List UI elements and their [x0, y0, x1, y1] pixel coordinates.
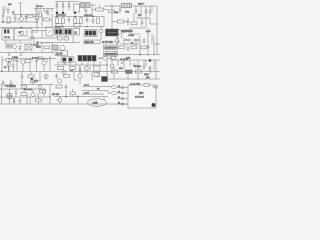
fuse F1 marks [124, 3, 130, 8]
diode D4 [145, 10, 147, 16]
transistor Q1 [19, 17, 23, 21]
wire step right [136, 18, 157, 24]
resistor R38 [28, 75, 34, 78]
transistor Q4 [57, 79, 61, 83]
capacitor C8 [86, 18, 89, 23]
transistor Q10 [42, 90, 46, 94]
IC U3 cell 3 [93, 31, 96, 36]
relay K1 [46, 27, 53, 36]
resistor R10 [6, 45, 12, 49]
svg-text:220V~: 220V~ [138, 4, 145, 6]
op-amp U4 [101, 56, 107, 62]
wire q11 [56, 97, 60, 105]
wire left rail x3 [2, 10, 4, 22]
svg-text:NT 12: NT 12 [4, 37, 11, 39]
svg-text:BC548: BC548 [134, 66, 141, 68]
wire u5 [116, 32, 127, 38]
svg-text:B.Pl.Mod: B.Pl.Mod [135, 97, 145, 99]
box X1 crossed [25, 45, 32, 51]
svg-text:SP2: SP2 [139, 93, 144, 95]
zener D3 [68, 2, 70, 11]
chassis box [14, 29, 32, 41]
capacitor C37 [143, 60, 146, 70]
wire right drops [140, 36, 154, 56]
wire bus y52 [0, 51, 54, 53]
capacitor C43 [2, 80, 5, 86]
diode D9 [13, 98, 15, 104]
lug E7 [155, 86, 158, 89]
resistor R37 [6, 59, 12, 62]
resistor R10 bar [7, 45, 11, 47]
capacitor C38 [19, 98, 22, 104]
wire drops r2 [134, 13, 146, 27]
capacitor C11 [127, 18, 130, 26]
resistor R14 [119, 46, 125, 49]
wire bus y845 [20, 80, 54, 86]
resistor R43 [22, 86, 27, 89]
connector J2 cell 1 [65, 30, 68, 34]
label wire 2 [82, 90, 96, 92]
capacitor C15 [16, 58, 19, 64]
wire right area [110, 60, 160, 70]
junction dots bus [1, 5, 140, 97]
resistor R31 [97, 18, 100, 24]
transformer T1 primary [74, 4, 80, 12]
wire Q1 leads [17, 14, 22, 22]
capacitor C31 [25, 15, 28, 23]
resistor R4 [56, 18, 59, 24]
capacitor C34 [141, 18, 144, 27]
chassis marks [17, 30, 27, 36]
svg-text:6,3V: 6,3V [146, 31, 151, 33]
node dot 1 [21, 27, 22, 28]
svg-text:AM: AM [8, 3, 11, 6]
resistor R44 [31, 80, 36, 83]
wire q9 [74, 72, 80, 85]
transformer T2 box [2, 29, 14, 41]
wire R8 [92, 5, 108, 14]
box filter FL2 [74, 24, 80, 28]
wire mid drops [74, 65, 98, 80]
resistor R40 [38, 57, 43, 60]
IC U3 cell 1 [85, 31, 88, 36]
wire mid link [12, 14, 37, 16]
resistor R21 [112, 70, 118, 73]
transformer T2 core [4, 30, 6, 34]
svg-text:D1 D2 D3: D1 D2 D3 [56, 15, 66, 17]
diode D2 [62, 2, 64, 12]
resistor R45 [85, 67, 91, 70]
module A4 dark [102, 77, 108, 82]
wire bus y104 [0, 103, 128, 105]
resistor R9 [118, 20, 125, 23]
wire right bus y54 [108, 54, 160, 56]
stub wire 2 [117, 92, 128, 94]
svg-text:BY 164: BY 164 [122, 31, 130, 33]
resistor R6 [74, 18, 77, 24]
switch S1 [52, 45, 58, 50]
resistor R33 [131, 22, 137, 25]
wire bus y585 [8, 59, 56, 62]
capacitor C41 [149, 6, 152, 16]
svg-text:1n 4u7: 1n 4u7 [32, 58, 39, 60]
wire vertical x50 [49, 84, 51, 104]
stub wire 1 [117, 87, 128, 89]
transistor Q2 [12, 45, 16, 49]
svg-text:4x UF 408: 4x UF 408 [102, 42, 113, 44]
antenna ANT [2, 7, 6, 14]
resistor R30 [39, 12, 41, 17]
node blob m [37, 42, 39, 44]
wire lower bus mid [54, 17, 104, 27]
connector lug E2 [112, 92, 117, 95]
transistor Q13 [38, 85, 42, 89]
svg-text:R12 R14: R12 R14 [84, 15, 93, 17]
node dot b2 [77, 96, 78, 97]
connector J2a shell [73, 29, 80, 36]
wire bus y79 [108, 78, 160, 80]
wire r42 [30, 97, 39, 104]
module A3 labeled box [104, 52, 118, 56]
svg-text:0,5A: 0,5A [114, 11, 119, 14]
svg-text:10u 1k2: 10u 1k2 [24, 89, 33, 91]
wire row y42 [40, 35, 80, 43]
capacitor C42 [2, 15, 4, 16]
wire right mesh [118, 28, 157, 55]
wire r drops2 [114, 60, 156, 79]
capacitor C30 [47, 12, 49, 16]
transistor Q3 [42, 61, 46, 65]
resistor R3 [44, 18, 50, 21]
resistor R34 [44, 46, 50, 49]
wire left edge low [0, 85, 14, 104]
resistor R7 [80, 18, 83, 24]
wire q14 [100, 27, 102, 40]
module A1 striation 2 [110, 30, 114, 36]
connector J3 cell 1 [63, 58, 67, 61]
wire U4 out [98, 57, 112, 59]
capacitor C17 [55, 74, 58, 80]
diode D8 [149, 66, 151, 74]
capacitor C1 [7, 7, 10, 14]
wire bm links [22, 72, 46, 85]
transistor Q14 [99, 29, 103, 33]
resistor R8 [96, 8, 104, 11]
svg-text:REC-PB: REC-PB [85, 42, 94, 44]
module notch [144, 84, 149, 87]
connector J2 cell 2 [68, 30, 71, 34]
connector J2 shell [64, 29, 72, 36]
wire x141 [140, 6, 142, 14]
resistor R24 [21, 93, 27, 96]
svg-text:21-33: 21-33 [56, 52, 63, 55]
svg-text:BC 327: BC 327 [52, 94, 60, 96]
transistor Q9 [78, 74, 82, 78]
diode D1 [56, 2, 58, 12]
wire lm4 [37, 58, 48, 62]
fuse F1 [122, 3, 132, 8]
wire left rail [1, 56, 3, 72]
wire R3 [42, 14, 52, 26]
capacitor C44 [10, 80, 13, 88]
wire r45 [86, 65, 88, 73]
capacitor C20 [65, 84, 68, 90]
relay K1 contact [48, 30, 51, 33]
svg-text:81 82: 81 82 [55, 27, 61, 29]
wire bus y97 [0, 94, 50, 97]
resistor R32 [109, 10, 115, 13]
box X1 diagonals [25, 45, 32, 51]
label wire 1 [82, 86, 96, 88]
resistor R17 [70, 67, 76, 70]
connector J1 cell 1 [56, 30, 59, 34]
wire T2 out [30, 32, 38, 42]
resistor R42 [36, 99, 42, 102]
label box REC [55, 51, 68, 56]
capacitor C12 [19, 45, 22, 51]
resistor R25 [40, 90, 46, 93]
resistor R36 [141, 46, 147, 49]
resistor R12 [58, 37, 63, 40]
wire lm links [2, 56, 50, 72]
wire right links [120, 41, 160, 46]
resistor R13 [64, 37, 69, 40]
stub comp 1 [8, 53, 10, 56]
resistor R20 [94, 73, 100, 77]
svg-text:2x50: 2x50 [36, 47, 42, 49]
wire rec-j3 [58, 55, 65, 64]
capacitor C4 electrolytic [56, 12, 58, 14]
svg-text:ws rt: ws rt [84, 84, 89, 87]
resistor R1 [7, 17, 10, 23]
capacitor C32 [92, 18, 95, 24]
connector J1 shell [55, 29, 63, 36]
resistor R2 [27, 15, 33, 18]
wire drops right [112, 6, 157, 30]
IC U3 box [84, 30, 97, 37]
capacitor C36 [21, 74, 24, 80]
resistor R35 [131, 46, 137, 49]
label wire 3 [82, 93, 96, 95]
transistor Q8 [44, 74, 48, 78]
wire bus y71 [0, 64, 160, 72]
transistor Q12 [110, 64, 114, 68]
wire r39 [72, 89, 74, 97]
svg-text:100n: 100n [144, 74, 150, 76]
node dot left [2, 21, 3, 22]
lug E5 [121, 98, 124, 100]
capacitor C39 [12, 62, 14, 72]
wire mid bus [54, 17, 104, 19]
IC U1 [80, 3, 85, 8]
lug E3 [121, 87, 124, 89]
speaker SP1 [88, 99, 107, 107]
connector J4 cell 2 [83, 55, 87, 61]
stub wire 4 [117, 103, 128, 105]
svg-text:S 2x4: S 2x4 [33, 45, 39, 47]
module A1 striation [107, 32, 117, 34]
transistor Q5 emitter [9, 95, 11, 97]
module A2 labeled box [104, 45, 118, 49]
connector J1 cell 2 [59, 30, 62, 34]
wire node A [1, 22, 37, 23]
resistor R16 [58, 67, 64, 70]
capacitor C6 electrolytic [74, 12, 76, 14]
node dot b1 [65, 96, 66, 97]
stub wire 3 [117, 98, 128, 100]
wire bus y65 [54, 61, 108, 65]
wire Q5 [9, 89, 11, 104]
wire top-right bus [104, 5, 157, 7]
transistor Q16 [62, 70, 66, 74]
capacitor C19 [15, 89, 18, 97]
capacitor C45 [79, 67, 82, 73]
svg-text:21814: 21814 [105, 46, 118, 50]
connector J3 shell [61, 57, 74, 62]
svg-text:ge bl: ge bl [84, 93, 89, 95]
box filter FL1 [56, 24, 62, 28]
motor M2 [60, 45, 65, 50]
capacitor C13 [147, 46, 150, 47]
wire mid-bottom [54, 90, 108, 104]
IC U3 cell 2 [89, 31, 92, 36]
resistor R46 [35, 14, 39, 20]
wire vertical x205 [19, 3, 23, 17]
motor M1 [20, 31, 24, 35]
wire top-left bus [34, 9, 54, 13]
resistor R26 [56, 85, 62, 88]
transistor Q15 [7, 63, 11, 67]
diode D7 [133, 39, 140, 41]
capacitor C35 [143, 38, 146, 44]
svg-text:T4 BC238: T4 BC238 [5, 85, 16, 88]
resistor R15 [25, 60, 31, 63]
module box SP2 [128, 85, 156, 108]
wire U1 out [84, 5, 96, 10]
resistor R39 [70, 92, 76, 95]
capacitor C2 [14, 14, 17, 22]
resistor R5 [62, 18, 65, 24]
node dot 2 [149, 59, 151, 61]
wire R2 [25, 15, 37, 17]
capacitor C40 [121, 62, 123, 63]
stub comp 2 [20, 53, 22, 56]
ground symbol GND1 [115, 37, 120, 45]
resistor R41 [111, 57, 116, 60]
wire dashed link [4, 42, 50, 44]
connector J4 cell 4 [92, 55, 96, 61]
resistor R23 [136, 70, 142, 73]
resistor R19 [64, 75, 70, 78]
wire top supply bus [55, 1, 79, 3]
transistor Q5 [7, 93, 12, 98]
wire lug links [96, 87, 112, 105]
wire q15 [8, 59, 10, 72]
transistor Q6 [31, 92, 35, 96]
lug E6 [121, 103, 124, 105]
capacitor C16 [35, 58, 38, 64]
transistor Q7 [21, 60, 25, 64]
IC U2 [86, 3, 91, 8]
module A1 dark [106, 29, 119, 36]
wire vertical rail [36, 4, 38, 30]
capacitor C18 [133, 64, 136, 65]
capacitor C3 [45, 11, 48, 14]
capacitor C9 [85, 8, 88, 14]
wire bottom bus left [0, 27, 54, 29]
resistor R18 [94, 66, 101, 71]
node U4 in [99, 57, 101, 59]
connector J4 cell 3 [87, 55, 91, 61]
svg-text:C 558: C 558 [12, 57, 19, 59]
connector lug E1 [112, 86, 117, 89]
wire q12 [107, 60, 112, 77]
capacitor C14 [127, 46, 130, 51]
transformer T2 winding [7, 30, 9, 34]
wire audio links [24, 89, 44, 104]
node dot blob [31, 78, 33, 80]
svg-text:C 816: C 816 [128, 35, 135, 37]
wire k1 links [28, 31, 58, 39]
transistor Q11 [58, 98, 62, 102]
wire R9 [112, 21, 128, 23]
connector J3 cell 2 [69, 58, 73, 61]
capacitor C5 electrolytic [62, 12, 64, 14]
terminal dark [152, 103, 156, 107]
op-amp U5 [119, 29, 125, 35]
connector J4 cell 1 [78, 55, 82, 61]
wire T2 drops [6, 40, 52, 53]
wire top exit [152, 86, 157, 88]
capacitor C10 [135, 10, 138, 14]
wire bus y89 [0, 88, 46, 90]
resistor R22 dark [126, 70, 133, 73]
lug E4 [121, 92, 124, 94]
capacitor C7 [68, 18, 71, 23]
diode D6 [124, 39, 131, 41]
capacitor C33 [119, 6, 122, 13]
label strip 1 [84, 40, 100, 44]
